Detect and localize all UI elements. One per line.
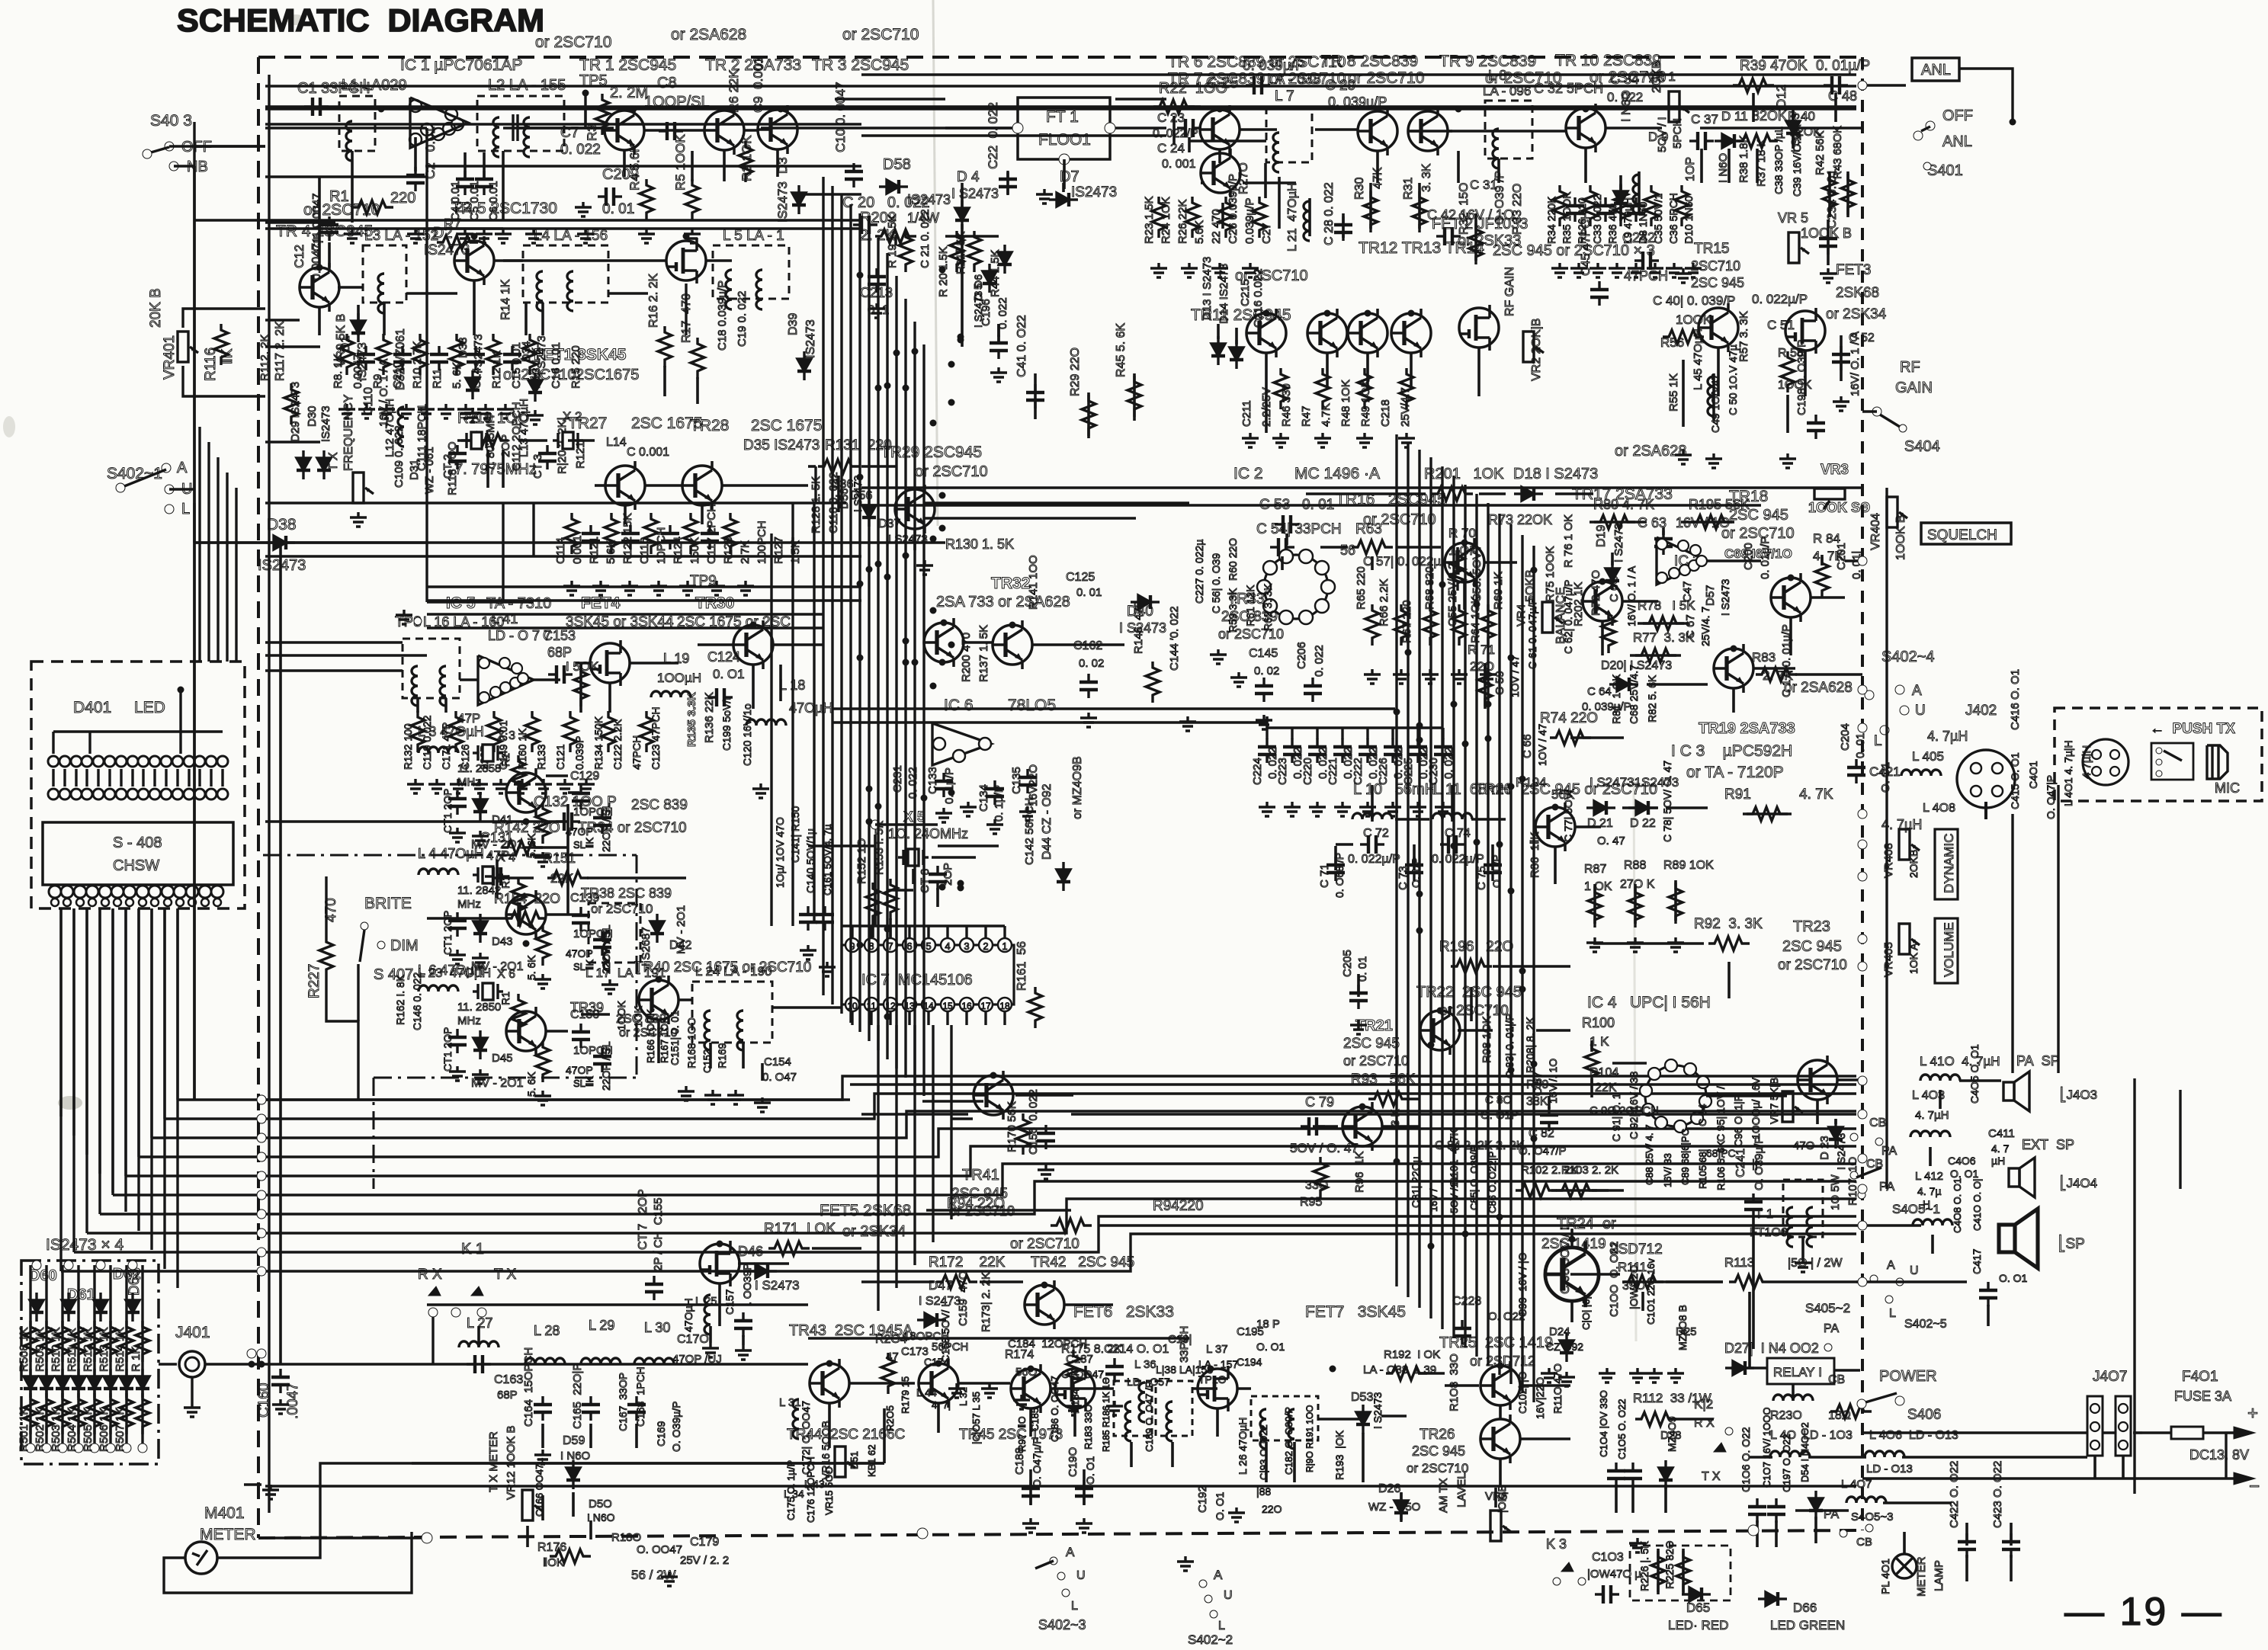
- switch S407 lever: [360, 930, 364, 962]
- matrix top pad 2: [64, 1261, 73, 1270]
- svg-text:R63: R63: [1355, 521, 1382, 537]
- svg-text:DIM: DIM: [390, 937, 419, 954]
- resistor R3: [595, 94, 609, 135]
- LED wire pair 8: [131, 769, 133, 787]
- speaker EXT SP: [2009, 1158, 2035, 1197]
- ground TR27 row: [679, 581, 696, 595]
- svg-text:15: 15: [942, 1001, 953, 1011]
- svg-text:C125: C125: [1066, 571, 1095, 584]
- svg-text:R104: R104: [1590, 1066, 1618, 1079]
- svg-text:C189 O. O47 /P: C189 O. O47 /P: [1144, 1382, 1155, 1453]
- svg-text:C165 22O|P: C165 22O|P: [571, 1363, 584, 1429]
- wire J401 gnd drop: [191, 1377, 193, 1402]
- transistor TR42: [1025, 1280, 1064, 1329]
- svg-text:J402: J402: [1965, 703, 1997, 719]
- wire h121: [926, 1209, 1071, 1212]
- IC7 pin wire top 1: [1003, 926, 1006, 938]
- diode D13: [1211, 336, 1225, 365]
- wire v30: [961, 183, 964, 207]
- ground C179: [661, 1572, 678, 1586]
- wire h149: [1666, 806, 1708, 809]
- wire v10: [723, 150, 726, 181]
- svg-text:C221: C221: [1326, 758, 1339, 785]
- resistor bias row: [486, 334, 500, 375]
- diode D24: [1560, 1333, 1573, 1362]
- ground TR20 row: [1667, 937, 1684, 952]
- antenna line junctions: [249, 1361, 255, 1368]
- wire v44: [1369, 183, 1372, 229]
- cap C213: [868, 268, 886, 293]
- matrix vertical wire 3: [61, 1265, 63, 1443]
- wire h30: [427, 501, 846, 505]
- relay K1 contact rx: [428, 1286, 441, 1296]
- svg-text:C153: C153: [543, 628, 576, 643]
- svg-text:R60 22O: R60 22O: [1227, 538, 1239, 581]
- svg-text:1OOK: 1OOK: [1676, 312, 1712, 327]
- channel fan feedthrough 1: [257, 1095, 266, 1104]
- svg-text:or 2SC710: or 2SC710: [1721, 525, 1795, 542]
- svg-text:‖K: ‖K: [584, 838, 595, 848]
- svg-text:OFF: OFF: [1942, 107, 1973, 124]
- diode D19: [1606, 561, 1619, 590]
- wire C222 top: [1366, 728, 1368, 739]
- svg-text:C 23: C 23: [1157, 111, 1185, 125]
- round IC2 body: [1264, 555, 1328, 619]
- wire h158: [1382, 1125, 1420, 1128]
- svg-text:C129: C129: [570, 770, 599, 783]
- wire h106: [812, 1247, 861, 1250]
- svg-text:47PCH: 47PCH: [630, 735, 643, 770]
- ground top-left: [344, 229, 361, 243]
- CHSW pin circle inner 14: [213, 899, 221, 906]
- switch S402-1 pole: [116, 483, 125, 492]
- board outline dashed border bottom: [258, 1530, 1862, 1538]
- trimmer CT7: [645, 1276, 663, 1300]
- svg-text:D34: D34: [520, 341, 533, 362]
- ground TR10 row: [1609, 263, 1625, 277]
- wire h173: [1731, 1366, 1767, 1370]
- svg-text:LAMP: LAMP: [1933, 1560, 1946, 1591]
- ground IC2 left2: [1230, 672, 1247, 687]
- ground FET5a: [702, 1343, 719, 1357]
- ground TR42 row: [1106, 1401, 1123, 1415]
- IC7 pin bottom 14: [922, 998, 935, 1011]
- ground L24 row: [754, 1097, 771, 1112]
- wire h60: [457, 439, 471, 442]
- svg-text:C 28 0. 022: C 28 0. 022: [1323, 182, 1336, 245]
- cap C11: [320, 216, 338, 241]
- ground L24 row: [678, 1086, 695, 1101]
- svg-text:R117 2. 2K: R117 2. 2K: [274, 321, 287, 381]
- J402 pin: [1971, 763, 1981, 774]
- svg-text:R166 1OOK: R166 1OOK: [645, 1009, 656, 1063]
- testpoint TP8: [414, 617, 422, 625]
- svg-text:R132 100: R132 100: [402, 723, 414, 770]
- cap C160: [271, 1369, 290, 1393]
- wire h135: [1622, 600, 1658, 603]
- resistor TR27 row: [605, 513, 618, 554]
- transformer core L2: [512, 114, 514, 141]
- pot VR405: [1899, 924, 1920, 954]
- svg-text:0. 01µ/P: 0. 01µ/P: [1816, 58, 1870, 74]
- cap C124: [708, 688, 733, 706]
- IC5 pin 7: [512, 663, 522, 674]
- svg-text:|C|O57 L 35: |C|O57 L 35: [970, 1392, 982, 1444]
- wire S407 down: [357, 964, 359, 1021]
- resistor R113: [1729, 1275, 1770, 1289]
- svg-text:C1O4 |OV 33O: C1O4 |OV 33O: [1598, 1390, 1609, 1457]
- wire h141: [1647, 683, 1708, 686]
- IC3 pin 7: [1690, 545, 1701, 556]
- cap C205: [1349, 985, 1368, 1009]
- channel fan feedthrough 9: [257, 1248, 266, 1257]
- svg-text:0. 022/P: 0. 022/P: [1153, 127, 1198, 140]
- svg-text:C123 47PCH: C123 47PCH: [650, 707, 662, 771]
- channel fan line 8: [87, 1199, 1856, 1233]
- svg-text:C216 0.022: C216 0.022: [1252, 268, 1265, 328]
- matrix resistor R502 v1: [120, 1321, 133, 1362]
- wire h102: [861, 1280, 934, 1283]
- svg-text:R103 2. 2K: R103 2. 2K: [1561, 1164, 1618, 1177]
- resistor TR27 row: [644, 513, 658, 554]
- LED feed from top: [179, 690, 181, 754]
- wire h184: [1570, 1273, 1620, 1276]
- resistor R151: [547, 871, 589, 885]
- svg-text:2SC 945: 2SC 945: [951, 1186, 1008, 1202]
- resistor R116: [214, 324, 228, 365]
- matrix diode row2 1: [24, 1369, 37, 1398]
- ground IC5 row: [557, 779, 573, 793]
- svg-text:C 79: C 79: [1305, 1094, 1334, 1110]
- svg-text:C227 0. 022µ: C227 0. 022µ: [1193, 540, 1205, 604]
- wire h50: [1201, 181, 1205, 184]
- wire v23: [486, 450, 489, 488]
- resistor TR10 row: [1553, 185, 1567, 226]
- svg-text:— 19 —: — 19 —: [2064, 1590, 2224, 1634]
- CHSW pin circle inner 11: [176, 899, 184, 906]
- cap TR10 row: [1596, 197, 1615, 222]
- LED lamp circle bottom 14: [194, 789, 205, 799]
- inductor L37: [1125, 1402, 1131, 1441]
- IC5 pin 4: [500, 682, 511, 693]
- svg-text:C 56| 0. O39: C 56| 0. O39: [1210, 553, 1222, 614]
- svg-text:R127: R127: [772, 537, 785, 564]
- IC7 pin wire bottom 13: [908, 1011, 910, 1025]
- wire h167: [1856, 1280, 1967, 1283]
- inductor L19: [651, 691, 691, 697]
- wire C224 top: [1266, 728, 1268, 739]
- resistor bias row: [377, 334, 390, 375]
- svg-text:FT 1: FT 1: [1046, 108, 1079, 126]
- svg-text:PA SP: PA SP: [2016, 1053, 2060, 1068]
- svg-text:|OW47O µ: |OW47O µ: [1587, 1568, 1641, 1581]
- inductor L2b: [524, 117, 530, 157]
- transistor TR22: [1420, 1006, 1460, 1055]
- IC1 pin 5: [443, 123, 455, 135]
- svg-text:1OOK: 1OOK: [615, 1000, 627, 1030]
- LED lamp circle top 4: [82, 756, 92, 767]
- wire v20: [541, 303, 544, 335]
- svg-text:C120 16V/1o: C120 16V/1o: [741, 703, 753, 766]
- LED lamp circle top 9: [138, 756, 149, 767]
- svg-text:D53: D53: [1351, 1391, 1373, 1404]
- cap C10: [845, 163, 863, 187]
- cap fb TR34: [593, 809, 611, 834]
- channel bus vertical 4: [98, 908, 101, 1174]
- wire h38: [644, 129, 704, 132]
- ground TR10 row: [1647, 263, 1663, 277]
- ground b TR39: [472, 1069, 489, 1084]
- crystal X TR38: [473, 867, 503, 883]
- wire h39: [744, 129, 758, 132]
- svg-text:C223: C223: [1276, 758, 1289, 785]
- svg-text:C124: C124: [707, 649, 740, 665]
- svg-text:C10 0. 0047: C10 0. 0047: [833, 82, 848, 152]
- svg-text:CB: CB: [1869, 1117, 1886, 1129]
- svg-text:C17O: C17O: [677, 1333, 709, 1346]
- wire v13: [318, 307, 321, 335]
- ground bias row: [338, 404, 355, 418]
- svg-text:I S2473: I S2473: [1719, 579, 1731, 616]
- svg-text:R91: R91: [1724, 787, 1751, 803]
- mic connector body: [2083, 739, 2128, 785]
- wire S403 top: [169, 145, 265, 147]
- caps row rail: [1267, 726, 1443, 729]
- diode D54: [1809, 1491, 1823, 1520]
- matrix vertical wire 4: [77, 1265, 79, 1443]
- svg-text:R167 1OK: R167 1OK: [659, 1017, 670, 1063]
- wire h117: [1521, 1384, 1570, 1387]
- wire LED top entry: [52, 732, 54, 754]
- switch S402-2 circles: [1199, 1580, 1207, 1588]
- svg-text:T X METER: T X METER: [487, 1431, 500, 1492]
- switch S404 lever: [1880, 415, 1900, 427]
- IC7 pin top 3: [960, 938, 974, 952]
- svg-text:TP5: TP5: [579, 72, 608, 89]
- svg-text:R38 1.8K: R38 1.8K: [1737, 135, 1750, 183]
- IC7 pin bottom 16: [960, 998, 974, 1011]
- capacitor C224: [1258, 738, 1276, 763]
- svg-text:SCHEMATIC DIAGRAM: SCHEMATIC DIAGRAM: [177, 2, 544, 38]
- wire h11: [832, 721, 1267, 724]
- resistor bias row: [523, 334, 537, 375]
- svg-text:L 10 56mH: L 10 56mH: [1353, 781, 1436, 798]
- svg-text:C 37: C 37: [1691, 112, 1718, 127]
- wire h19: [265, 123, 861, 126]
- wire h21: [1189, 139, 1266, 143]
- diode D TR38: [473, 914, 487, 943]
- resistor R56: [1663, 330, 1704, 344]
- resistor R70: [1451, 549, 1464, 591]
- wire VR401 dn: [183, 366, 194, 396]
- svg-text:O. O1: O. O1: [1084, 1456, 1096, 1485]
- svg-text:220: 220: [390, 190, 415, 207]
- svg-text:D31: D31: [408, 459, 421, 480]
- cap C196: [990, 335, 1008, 359]
- resistor TR12 row: [1358, 368, 1371, 409]
- CHSW pin circle 14: [211, 886, 223, 898]
- resistor R22: [1153, 100, 1195, 114]
- svg-text:VR404: VR404: [1869, 513, 1882, 550]
- LED lamp circle top 12: [172, 756, 183, 767]
- resistor R6: [739, 141, 752, 182]
- wire h5: [427, 599, 861, 602]
- resistor R87: [1588, 886, 1602, 928]
- svg-text:L2 LA - 155: L2 LA - 155: [488, 77, 566, 94]
- svg-text:H: H: [1923, 1198, 1930, 1210]
- IC7 pin bottom 12: [884, 998, 897, 1011]
- ground C242: [1675, 268, 1692, 283]
- svg-text:VR405: VR405: [1882, 942, 1895, 977]
- wire v16: [357, 305, 360, 335]
- wire h0: [265, 107, 861, 111]
- ground TR10 row: [1685, 263, 1702, 277]
- ground TR41: [1038, 1165, 1054, 1179]
- cap C156: [1037, 1125, 1055, 1149]
- LED wire pair 10: [153, 769, 156, 787]
- svg-text:D41: D41: [492, 813, 513, 826]
- cap C23: [1177, 119, 1201, 137]
- wire h109: [959, 1382, 1010, 1385]
- svg-text:5.6K: 5.6K: [1193, 220, 1206, 244]
- resistor R32: [1469, 223, 1483, 264]
- switch S402-3 circles: [1050, 1557, 1057, 1565]
- J407 pin b: [2119, 1404, 2128, 1413]
- ground c TR39: [534, 1091, 551, 1105]
- svg-text:VR3: VR3: [1820, 462, 1849, 478]
- cap C188: [1022, 1480, 1040, 1504]
- svg-text:R81 1 OK: R81 1 OK: [1610, 674, 1622, 724]
- svg-text:D19: D19: [1595, 525, 1608, 547]
- pot VR12: [522, 1490, 543, 1520]
- IC7 pin wire bottom 15: [946, 1011, 948, 1025]
- wire h157: [1313, 1125, 1338, 1128]
- wire h92: [808, 844, 875, 847]
- svg-text:C187: C187: [1066, 1353, 1093, 1366]
- wire v36: [1172, 116, 1176, 145]
- channel fan line 3: [152, 1111, 1856, 1138]
- inductor L27: [459, 1341, 499, 1347]
- IC5 pin 1: [479, 658, 489, 668]
- IC4 pin 9: [1684, 1063, 1696, 1075]
- svg-text:D35 IS2473: D35 IS2473: [743, 437, 820, 453]
- svg-text:D 11: D 11: [1721, 109, 1748, 123]
- wire h55: [406, 292, 457, 295]
- IC7 pin top 7: [884, 938, 897, 952]
- switch block S-408 rect: [43, 822, 233, 885]
- svg-text:R75 1OOK: R75 1OOK: [1544, 546, 1557, 602]
- svg-text:C41 0. O22: C41 0. O22: [1015, 315, 1028, 377]
- svg-text:IC 4 UPC| I 56H: IC 4 UPC| I 56H: [1587, 994, 1711, 1011]
- svg-text:X 3: X 3: [497, 729, 515, 742]
- resistor TR27 row: [723, 513, 737, 554]
- CHSW pin circle inner 4: [88, 899, 96, 906]
- svg-text:L 32: L 32: [958, 1387, 969, 1406]
- svg-text:C4O8 O. O1: C4O8 O. O1: [1952, 1178, 1963, 1233]
- ground TR42 row: [981, 1383, 998, 1398]
- svg-text:R73 22OK: R73 22OK: [1488, 512, 1552, 527]
- svg-text:R42 56K: R42 56K: [1814, 131, 1827, 175]
- svg-text:D401: D401: [73, 699, 111, 716]
- inductor L4b: [567, 271, 573, 311]
- resistor R78: [1643, 617, 1684, 630]
- cap C165: [582, 1396, 600, 1421]
- IC4 pin 4: [1655, 1117, 1667, 1129]
- switch S403 lever: [151, 147, 169, 152]
- svg-text:K 3: K 3: [1546, 1536, 1567, 1552]
- matrix diode D63 symbol: [126, 1293, 140, 1322]
- transistor TR25: [1480, 1361, 1520, 1410]
- matrix bottom pad 6: [106, 1443, 115, 1453]
- svg-text:2SC 945: 2SC 945: [1412, 1443, 1465, 1459]
- svg-text:L 37: L 37: [1206, 1343, 1228, 1356]
- svg-text:C 64: C 64: [1587, 685, 1612, 698]
- svg-text:MZ4O8 B: MZ4O8 B: [1676, 1305, 1689, 1350]
- resistor R154: [505, 912, 547, 925]
- wire v58: [1834, 93, 1837, 122]
- svg-text:C411: C411: [1988, 1127, 2015, 1140]
- resistor R91: [1747, 807, 1788, 821]
- resistor IC5 row: [601, 711, 615, 752]
- ground FET3 row: [1833, 396, 1849, 411]
- wire h172: [1862, 1477, 2133, 1480]
- svg-text:C 71: C 71: [1318, 863, 1331, 888]
- coil box L38 dashed: [1156, 1381, 1192, 1436]
- mic connector pin: [2110, 750, 2119, 759]
- LED lamp circle bottom 10: [149, 789, 160, 799]
- svg-text:R65 220: R65 220: [1355, 566, 1368, 610]
- wire v27: [837, 476, 840, 512]
- wire h42: [945, 127, 1012, 130]
- svg-text:L14: L14: [606, 436, 627, 449]
- svg-text:C241: C241: [1734, 1149, 1747, 1177]
- svg-text:R508 1K: R508 1K: [18, 1328, 30, 1372]
- wire h89: [581, 1013, 610, 1016]
- svg-text:D63: D63: [127, 1269, 143, 1296]
- IC3 pin 5: [1689, 560, 1699, 571]
- LED lamp circle bottom 6: [104, 789, 115, 799]
- IC6 pin 3: [953, 750, 965, 762]
- IC7 pin bottom 17: [979, 998, 993, 1011]
- capacitor C220: [1308, 738, 1326, 763]
- resistor R17: [691, 338, 704, 379]
- wire S402-1: [169, 488, 194, 490]
- wire h13: [924, 517, 1136, 520]
- svg-text:2: 2: [983, 940, 988, 952]
- svg-text:TR33: TR33: [1227, 591, 1265, 607]
- IC7 pin wire top 2: [984, 926, 986, 938]
- ground TR24 row: [1558, 1372, 1575, 1386]
- svg-text:1Oµ/ 1OV 47O: 1Oµ/ 1OV 47O: [774, 817, 786, 888]
- svg-text:X 6: X 6: [497, 968, 515, 981]
- wire h6: [427, 613, 823, 616]
- wire h171: [2225, 1431, 2234, 1434]
- cap C132: [556, 812, 580, 831]
- ground IC2 left: [1210, 649, 1227, 664]
- J407 pin a: [2090, 1422, 2100, 1431]
- channel bus elbow 4: [98, 908, 101, 1214]
- CHSW pin circle 13: [199, 886, 211, 898]
- transistor TR39: [506, 1007, 546, 1056]
- svg-text:TR25 2SC 1419: TR25 2SC 1419: [1439, 1334, 1553, 1351]
- wire S403 to bus: [174, 122, 194, 166]
- svg-text:C146 0. 022: C146 0. 022: [411, 972, 423, 1030]
- dash-dot boundary bottom: [374, 1077, 637, 1079]
- svg-text:TR19 2SA733: TR19 2SA733: [1699, 720, 1795, 737]
- wire h80: [265, 820, 427, 823]
- svg-text:D57: D57: [1704, 585, 1717, 606]
- ground L17: [601, 979, 618, 994]
